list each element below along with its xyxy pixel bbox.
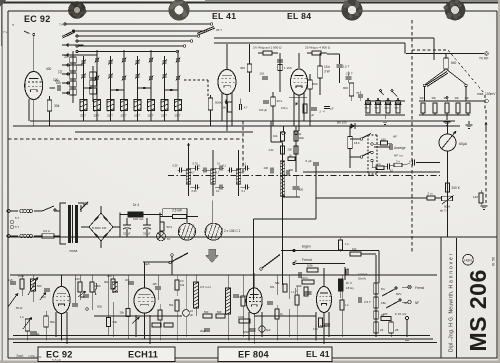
svg-text:1 k: 1 k xyxy=(291,290,295,294)
svg-text:5T: 5T xyxy=(357,91,361,95)
svg-text:0,25: 0,25 xyxy=(192,189,198,193)
svg-text:5000: 5000 xyxy=(320,325,326,328)
svg-text:0,25: 0,25 xyxy=(173,164,179,168)
svg-text:18 Hy: 18 Hy xyxy=(346,286,354,290)
svg-text:4µ5: 4µ5 xyxy=(145,262,150,266)
svg-text:180: 180 xyxy=(381,138,386,142)
svg-text:2 x 108 C 1: 2 x 108 C 1 xyxy=(224,229,241,233)
svg-text:III. 56: III. 56 xyxy=(492,257,496,266)
svg-text:25 T: 25 T xyxy=(80,114,86,118)
svg-text:4,7: 4,7 xyxy=(191,171,195,175)
svg-text:70068: 70068 xyxy=(69,249,78,253)
svg-text:2,5 T: 2,5 T xyxy=(346,72,353,76)
svg-text:500: 500 xyxy=(37,284,42,288)
svg-text:100k: 100k xyxy=(299,137,305,140)
svg-text:NF: NF xyxy=(415,301,419,305)
svg-text:54Ω: 54Ω xyxy=(365,108,369,110)
svg-text:Fremd: Fremd xyxy=(302,258,312,262)
svg-text:2 - 4: 2 - 4 xyxy=(320,111,326,114)
svg-text:6V: 6V xyxy=(167,237,171,241)
svg-text:200: 200 xyxy=(288,148,293,152)
svg-text:Anzeige: Anzeige xyxy=(394,146,406,150)
svg-text:4,7: 4,7 xyxy=(244,105,248,109)
svg-text:60µA: 60µA xyxy=(459,142,468,146)
svg-text:180: 180 xyxy=(383,312,388,316)
svg-text:100 µ: 100 µ xyxy=(281,106,288,110)
svg-text:50 k: 50 k xyxy=(167,225,173,229)
svg-text:BA 100: BA 100 xyxy=(337,121,347,125)
svg-text:400: 400 xyxy=(41,295,46,299)
svg-text:1000: 1000 xyxy=(95,284,101,288)
svg-text:3+8: 3+8 xyxy=(8,278,13,282)
svg-text:18 k: 18 k xyxy=(354,141,360,145)
svg-text:30 k: 30 k xyxy=(277,99,283,103)
svg-text:300: 300 xyxy=(289,168,294,172)
svg-text:1000: 1000 xyxy=(18,274,24,278)
svg-text:2,5 kW: 2,5 kW xyxy=(172,209,182,213)
svg-text:15 k: 15 k xyxy=(324,65,330,69)
svg-text:500: 500 xyxy=(313,82,318,86)
svg-text:0,1: 0,1 xyxy=(197,164,201,168)
svg-text:101: 101 xyxy=(260,72,265,76)
svg-text:540: 540 xyxy=(451,61,457,65)
svg-text:405: 405 xyxy=(153,283,158,286)
svg-text:22: 22 xyxy=(380,328,384,332)
svg-text:25 T: 25 T xyxy=(161,114,167,118)
svg-text:0,1: 0,1 xyxy=(243,162,247,166)
svg-text:25 T: 25 T xyxy=(121,114,127,118)
svg-text:Juni: Juni xyxy=(16,353,24,358)
svg-text:5 T: 5 T xyxy=(15,225,19,229)
svg-text:500k: 500k xyxy=(215,101,222,105)
svg-text:30k: 30k xyxy=(54,104,60,108)
svg-text:180: 180 xyxy=(222,106,227,110)
svg-text:30k: 30k xyxy=(432,96,437,100)
svg-text:µF: µF xyxy=(294,259,297,263)
svg-text:50k: 50k xyxy=(275,281,280,285)
svg-text:MS 206: MS 206 xyxy=(465,269,491,351)
svg-text:NF / m: NF / m xyxy=(394,154,403,158)
svg-text:1 160: 1 160 xyxy=(284,66,292,70)
svg-text:28: 28 xyxy=(395,328,399,332)
svg-text:EL 41: EL 41 xyxy=(306,349,330,359)
svg-text:2,5 m H: 2,5 m H xyxy=(200,285,211,289)
svg-text:5,6 µF: 5,6 µF xyxy=(52,359,61,363)
svg-text:0,6 A: 0,6 A xyxy=(43,229,50,233)
svg-text:14: 14 xyxy=(299,133,302,136)
svg-text:EC 92: EC 92 xyxy=(24,14,51,24)
svg-text:1956 u.w.: 1956 u.w. xyxy=(28,355,42,359)
svg-text:0,1: 0,1 xyxy=(216,189,220,193)
svg-text:100: 100 xyxy=(56,81,61,85)
svg-text:≈: ≈ xyxy=(12,22,15,27)
svg-text:TV RF: TV RF xyxy=(479,57,489,61)
svg-text:2,5 T: 2,5 T xyxy=(364,300,371,304)
svg-text:µF: µF xyxy=(311,114,314,117)
svg-text:2k: 2k xyxy=(289,153,292,157)
svg-text:30k: 30k xyxy=(420,96,425,100)
svg-text:50k: 50k xyxy=(113,320,118,324)
svg-text:30µF: 30µF xyxy=(200,329,206,333)
svg-text:7 fr: 7 fr xyxy=(58,69,62,73)
svg-text:5 T: 5 T xyxy=(15,216,19,220)
svg-text:0,5: 0,5 xyxy=(180,279,184,283)
svg-text:240: 240 xyxy=(75,277,80,281)
svg-text:90k: 90k xyxy=(104,280,109,284)
svg-text:30k: 30k xyxy=(465,96,470,100)
svg-text:170: 170 xyxy=(313,327,318,331)
svg-text:16: 16 xyxy=(190,309,193,313)
svg-text:7 A: 7 A xyxy=(59,23,63,27)
svg-text:500: 500 xyxy=(204,310,209,314)
svg-text:10k: 10k xyxy=(352,247,357,251)
svg-text:1 k: 1 k xyxy=(345,242,349,246)
svg-text:504: 504 xyxy=(270,285,275,289)
svg-text:100 mA: 100 mA xyxy=(133,217,143,221)
svg-text:41112: 41112 xyxy=(238,296,245,299)
svg-text:30k: 30k xyxy=(120,311,125,315)
svg-text:0,1: 0,1 xyxy=(223,164,227,168)
svg-text:2,5 T: 2,5 T xyxy=(343,65,350,69)
svg-text:5µF: 5µF xyxy=(266,328,271,332)
svg-text:50Ω: 50Ω xyxy=(97,305,102,309)
svg-text:54Ω: 54Ω xyxy=(375,108,379,110)
svg-text:54Ω: 54Ω xyxy=(395,108,399,110)
svg-text:90V: 90V xyxy=(396,292,401,296)
svg-text:25 T: 25 T xyxy=(107,114,113,118)
svg-text:F 10 mV: F 10 mV xyxy=(395,312,406,316)
svg-text:2 k: 2 k xyxy=(377,162,381,166)
svg-text:0,1: 0,1 xyxy=(217,162,221,166)
svg-text:25 T: 25 T xyxy=(148,114,154,118)
svg-text:100 µF: 100 µF xyxy=(259,108,268,112)
svg-text:100: 100 xyxy=(264,166,269,170)
svg-text:Dr 4: Dr 4 xyxy=(133,203,139,207)
svg-text:7 x: 7 x xyxy=(3,30,8,34)
svg-text:10k: 10k xyxy=(180,283,185,287)
svg-text:5000: 5000 xyxy=(243,330,249,334)
svg-text:NF: NF xyxy=(81,295,85,299)
svg-text:HGN: HGN xyxy=(464,259,472,263)
svg-text:400: 400 xyxy=(125,278,130,282)
svg-text:25 T: 25 T xyxy=(216,28,222,32)
svg-text:900: 900 xyxy=(343,86,348,90)
svg-text:10k: 10k xyxy=(273,134,278,138)
svg-text:18k: 18k xyxy=(381,301,386,305)
svg-text:2 k: 2 k xyxy=(396,160,400,164)
svg-text:200 K: 200 K xyxy=(452,186,461,190)
svg-text:25 T: 25 T xyxy=(134,114,140,118)
svg-text:100/150: 100/150 xyxy=(358,273,368,277)
svg-text:300: 300 xyxy=(299,188,304,192)
svg-text:EL 84: EL 84 xyxy=(287,11,311,21)
svg-text:360: 360 xyxy=(240,66,245,70)
svg-text:4,7: 4,7 xyxy=(216,171,220,175)
svg-text:8 k: 8 k xyxy=(381,287,386,291)
svg-text:max. 100mV: max. 100mV xyxy=(477,92,496,96)
svg-text:4,5k: 4,5k xyxy=(269,148,275,152)
svg-text:20mVy: 20mVy xyxy=(358,277,367,281)
svg-text:900: 900 xyxy=(107,274,112,278)
svg-text:Eigen: Eigen xyxy=(302,245,311,249)
svg-text:ECH11: ECH11 xyxy=(128,350,158,360)
svg-text:EL 41: EL 41 xyxy=(212,11,236,21)
svg-text:54Ω: 54Ω xyxy=(385,108,389,110)
svg-text:100 k: 100 k xyxy=(301,276,308,280)
svg-text:500k: 500k xyxy=(307,264,313,268)
svg-text:4,7: 4,7 xyxy=(241,171,245,175)
svg-text:50k: 50k xyxy=(50,320,55,324)
svg-text:400: 400 xyxy=(46,67,52,71)
svg-text:500: 500 xyxy=(217,310,222,314)
svg-text:6 µF: 6 µF xyxy=(306,159,312,163)
svg-text:30k: 30k xyxy=(455,96,460,100)
svg-text:1 k: 1 k xyxy=(20,315,24,319)
svg-text:µF: µF xyxy=(331,108,334,111)
svg-text:50k: 50k xyxy=(169,303,174,307)
svg-text:0,1: 0,1 xyxy=(242,189,246,193)
svg-text:EF 804: EF 804 xyxy=(238,350,270,360)
svg-text:20: 20 xyxy=(64,55,68,59)
svg-text:Dipl.-Jng. H·G. Neuwirth, H a: Dipl.-Jng. H·G. Neuwirth, H a n n o v e … xyxy=(449,253,455,352)
svg-text:µF: µF xyxy=(346,267,349,271)
svg-text:HF: HF xyxy=(393,135,397,139)
svg-text:µF: µF xyxy=(190,313,193,317)
svg-text:25 T: 25 T xyxy=(175,114,181,118)
svg-text:120: 120 xyxy=(473,195,478,199)
svg-text:1k: 1k xyxy=(280,312,283,316)
svg-text:100k: 100k xyxy=(238,315,245,319)
svg-text:B 300C 130: B 300C 130 xyxy=(92,226,107,230)
svg-text:3 W: 3 W xyxy=(324,70,330,74)
svg-text:25 Wdg u-4 800 Ω: 25 Wdg u-4 800 Ω xyxy=(305,46,331,50)
svg-text:1 k: 1 k xyxy=(345,303,349,307)
svg-text:2½ Wdg auf 1 800 Ω: 2½ Wdg auf 1 800 Ω xyxy=(253,46,282,50)
svg-text:25 T: 25 T xyxy=(94,114,100,118)
svg-text:ab 7): ab 7) xyxy=(440,209,446,213)
svg-text:2 m: 2 m xyxy=(428,192,434,196)
svg-text:Dr 3: Dr 3 xyxy=(346,281,352,285)
svg-text:50 Ω: 50 Ω xyxy=(16,306,23,310)
svg-text:Fremd: Fremd xyxy=(415,286,424,290)
